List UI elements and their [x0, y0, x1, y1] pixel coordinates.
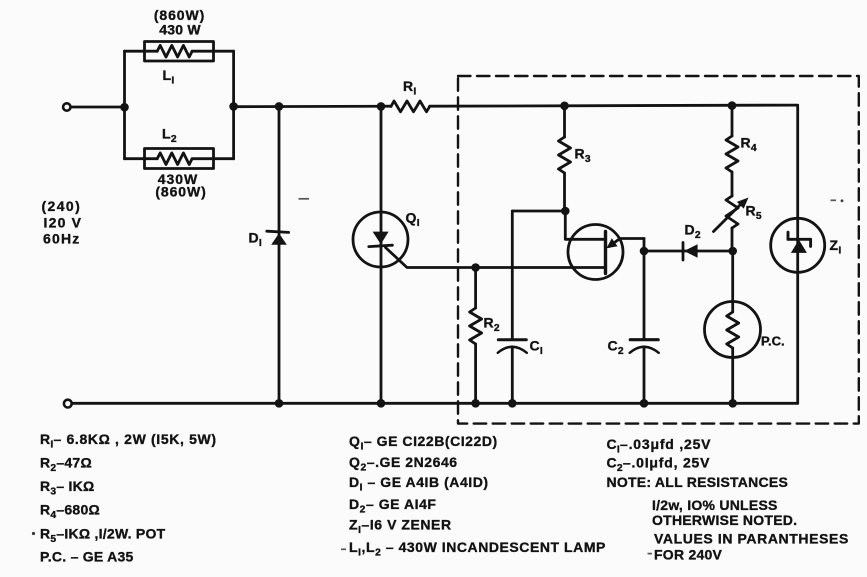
svg-text:430 W: 430 W: [159, 22, 201, 38]
svg-text:P.C.: P.C.: [761, 334, 785, 349]
svg-text:OTHERWISE NOTED.: OTHERWISE NOTED.: [652, 512, 797, 528]
svg-text:VALUES IN PARANTHESES: VALUES IN PARANTHESES: [654, 531, 849, 547]
svg-text:(860W): (860W): [155, 184, 206, 200]
svg-text:NOTE: ALL RESISTANCES: NOTE: ALL RESISTANCES: [607, 474, 789, 490]
svg-text:60Hz: 60Hz: [43, 231, 80, 247]
svg-text:I/2w, IO% UNLESS: I/2w, IO% UNLESS: [652, 497, 778, 513]
svg-text:P.C. – GE A35: P.C. – GE A35: [40, 549, 134, 565]
svg-text:I20 V: I20 V: [44, 215, 83, 231]
svg-text:FOR 240V: FOR 240V: [654, 547, 723, 563]
svg-text:(240): (240): [42, 198, 82, 214]
